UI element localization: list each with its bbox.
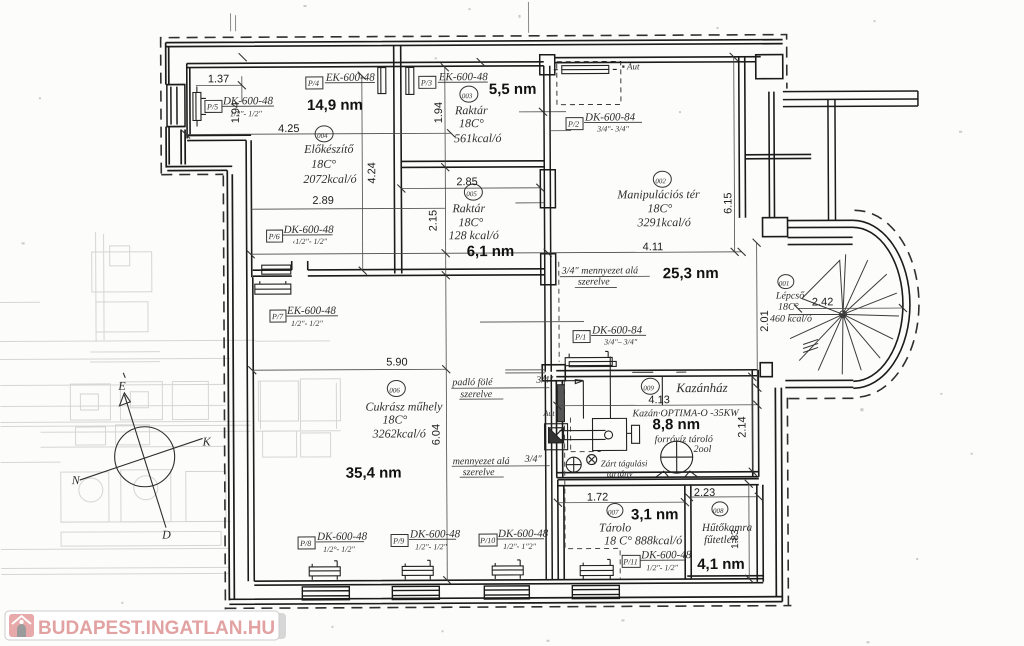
boiler equipment: [544, 356, 698, 478]
svg-text:Kazánház: Kazánház: [675, 380, 727, 395]
svg-text:DK-600-48: DK-600-48: [316, 531, 368, 543]
svg-text:N: N: [71, 473, 81, 487]
svg-text:3262kcal/ó: 3262kcal/ó: [372, 426, 426, 440]
svg-text:009: 009: [643, 384, 654, 392]
inner walls: room top wall: [187, 57, 764, 586]
svg-text:6,1 nm: 6,1 nm: [467, 243, 515, 260]
svg-text:EK-600-48: EK-600-48: [325, 72, 375, 84]
svg-text:1/2″- 1/2″: 1/2″- 1/2″: [291, 319, 323, 328]
svg-text:25,3 nm: 25,3 nm: [663, 265, 719, 282]
svg-text:18C°: 18C°: [382, 412, 407, 426]
svg-text:DK-600-48: DK-600-48: [283, 224, 335, 236]
svg-text:P/3: P/3: [420, 78, 432, 87]
room 005 circle + labels: [427, 176, 514, 260]
radiator P/7 horizontal: [255, 281, 291, 294]
svg-text:14,9 nm: 14,9 nm: [307, 97, 363, 114]
svg-text:007: 007: [608, 508, 619, 516]
svg-text:EK-600-48: EK-600-48: [286, 305, 336, 317]
svg-text:4,1 nm: 4,1 nm: [697, 556, 745, 573]
svg-text:1/2″- 1″2″: 1/2″- 1″2″: [503, 542, 537, 551]
svg-text:DK-600-84: DK-600-84: [591, 324, 643, 336]
spiral stair treads: [789, 254, 900, 375]
svg-text:EK-600-48: EK-600-48: [438, 71, 488, 83]
room 007 Tarolo labels: [587, 491, 682, 547]
svg-text:001: 001: [779, 280, 790, 288]
svg-text:2.85: 2.85: [456, 176, 477, 188]
svg-text:DK-600-84: DK-600-84: [584, 111, 636, 123]
radiator label P/9: [391, 528, 461, 551]
svg-text:‹1/2″- 1/2″: ‹1/2″- 1/2″: [293, 237, 328, 246]
wall W1 between room 004 and 003/005: [394, 45, 402, 273]
svg-text:szerelve: szerelve: [578, 276, 610, 287]
radiator label P/3: [419, 71, 488, 88]
svg-text:szerelve: szerelve: [463, 467, 495, 478]
svg-text:1.72: 1.72: [587, 491, 608, 503]
room 006 circle + labels: [345, 276, 651, 481]
svg-text:18 C° 888kcal/ó: 18 C° 888kcal/ó: [604, 533, 682, 547]
svg-text:K: K: [202, 434, 212, 448]
svg-text:006: 006: [389, 386, 400, 394]
Kazanhaz walls: [556, 370, 759, 478]
door openings in Kazanhaz top wall: [632, 371, 686, 373]
svg-text:8,8 nm: 8,8 nm: [652, 416, 700, 433]
room 009 Kazanhaz labels: [542, 378, 748, 479]
svg-text:tartány: tartány: [607, 468, 633, 478]
svg-text:DK-600-48: DK-600-48: [497, 528, 549, 540]
svg-text:P/6: P/6: [268, 232, 280, 241]
svg-text:DK-600-48: DK-600-48: [409, 528, 461, 540]
svg-text:2.01: 2.01: [759, 310, 771, 331]
svg-text:2.23: 2.23: [694, 487, 715, 499]
svg-text:1.37: 1.37: [208, 73, 229, 85]
svg-text:4.24: 4.24: [366, 162, 378, 183]
svg-text:18C°: 18C°: [459, 116, 484, 130]
svg-text:004: 004: [317, 132, 328, 140]
svg-text:18C°: 18C°: [458, 215, 483, 229]
radiator label P/2: [566, 61, 642, 133]
svg-text:▪ Aut: ▪ Aut: [622, 61, 640, 71]
thin vertical mark above boundary: [515, 112, 571, 203]
bottom radiators x4: [309, 559, 613, 580]
radiator label P/8: [298, 531, 368, 554]
svg-text:2.15: 2.15: [427, 210, 439, 231]
svg-text:5,5 nm: 5,5 nm: [489, 81, 537, 98]
outer walls: [166, 40, 786, 605]
svg-text:2.14: 2.14: [736, 416, 748, 437]
room 004 circle + labels: [208, 73, 379, 208]
svg-text:1.94: 1.94: [433, 102, 445, 123]
radiator P/4 vertical: [378, 68, 386, 94]
svg-text:P/10: P/10: [479, 536, 495, 545]
svg-text:P/7: P/7: [271, 312, 284, 321]
radiator label P/4: [306, 72, 375, 89]
svg-text:Zárt tágulási: Zárt tágulási: [601, 458, 648, 468]
stair tower rounded walls: [785, 220, 911, 389]
dashed property boundary: [161, 34, 921, 610]
room 002 circle + labels: [560, 171, 735, 288]
svg-text:35,4 nm: 35,4 nm: [346, 464, 402, 481]
svg-text:2ool: 2ool: [694, 444, 712, 455]
window W top-left outer wall: [167, 85, 185, 127]
svg-text:003: 003: [462, 92, 473, 100]
hatched pipe band in Kazanhaz: [557, 385, 564, 422]
radiator label P/11: [622, 549, 692, 572]
svg-text:4.25: 4.25: [278, 123, 299, 135]
room 001 stairs labels: [759, 274, 834, 331]
svg-text:P/8: P/8: [299, 539, 311, 548]
svg-text:4.13: 4.13: [648, 394, 669, 406]
dimension lines thin: [186, 56, 905, 581]
svg-text:2.89: 2.89: [312, 195, 333, 207]
compass letters: [70, 378, 212, 542]
radiator P/1 horizontal: [565, 351, 616, 366]
svg-text:Előkészítő: Előkészítő: [303, 142, 354, 156]
svg-text:Hűtőkamra: Hűtőkamra: [701, 522, 753, 534]
bottom wall windows x4: [302, 585, 619, 600]
radiator label P/10: [479, 528, 549, 551]
watermark bar: [5, 611, 286, 640]
svg-text:18C°: 18C°: [778, 302, 799, 313]
terrace top right: [783, 91, 919, 221]
P1 pipe lines: [480, 322, 584, 374]
svg-text:3,1 nm: 3,1 nm: [631, 506, 679, 523]
svg-text:3/4″- 3/4″: 3/4″- 3/4″: [596, 124, 629, 133]
svg-text:18C°: 18C°: [647, 201, 672, 215]
radiator label P/5: [205, 95, 274, 118]
svg-text:6.04: 6.04: [431, 424, 443, 445]
svg-text:3/4″ mennyezet alá: 3/4″ mennyezet alá: [561, 265, 638, 276]
dimension tick marks: [182, 50, 909, 586]
radiator P/6 horizontal: [262, 265, 291, 274]
room 003 circle + labels: [433, 81, 537, 146]
radiator P/3 vertical: [406, 67, 414, 94]
svg-text:DK-600-48: DK-600-48: [222, 95, 274, 107]
svg-text:szerelve: szerelve: [460, 389, 492, 400]
svg-text:3291kcal/ó: 3291kcal/ó: [636, 215, 690, 229]
heating pipes dashed (flue corridor): [559, 261, 621, 578]
svg-text:Raktár: Raktár: [451, 201, 485, 215]
svg-text:padló fölé: padló fölé: [451, 377, 493, 388]
stair section break mark: [803, 339, 818, 352]
svg-text:P/11: P/11: [622, 557, 638, 566]
Tarolo / Hutokamra walls: [558, 479, 764, 583]
svg-text:DK-600-48: DK-600-48: [640, 549, 692, 561]
svg-text:3/4″: 3/4″: [524, 454, 543, 465]
svg-text:460 kcal/ó: 460 kcal/ó: [770, 313, 812, 324]
svg-text:008: 008: [713, 507, 724, 515]
stair bay walls right side: [739, 54, 813, 376]
svg-text:Lépcső: Lépcső: [775, 291, 805, 302]
radiator label P/7: [270, 305, 338, 328]
wall between 003 and 005: [401, 161, 544, 168]
svg-text:1/2″- 1/2″: 1/2″- 1/2″: [415, 542, 447, 551]
svg-text:1/2″- 1/2″: 1/2″- 1/2″: [230, 109, 262, 118]
svg-text:2.42: 2.42: [812, 296, 833, 308]
svg-text:005: 005: [466, 190, 477, 198]
svg-text:Manipulációs tér: Manipulációs tér: [616, 187, 700, 201]
svg-text:D: D: [161, 528, 171, 542]
svg-text:561kcal/ó: 561kcal/ó: [454, 131, 501, 145]
wall south of 004/005 (north wall of Cukrasz): [253, 260, 545, 276]
svg-text:E: E: [117, 379, 126, 393]
svg-text:BUDAPEST.INGATLAN.HU: BUDAPEST.INGATLAN.HU: [38, 618, 275, 639]
svg-text:1/2″- 1/2″: 1/2″- 1/2″: [646, 563, 678, 572]
svg-text:P/5: P/5: [206, 102, 218, 111]
svg-text:3/4″– 3/4″: 3/4″– 3/4″: [603, 337, 638, 346]
svg-text:2072kcal/ó: 2072kcal/ó: [303, 172, 356, 186]
svg-text:1.83: 1.83: [730, 529, 741, 549]
corner block at Kazanhaz NW: [542, 365, 565, 381]
radiator P/5 vertical: [193, 86, 206, 126]
radiator label P/1: [573, 324, 646, 346]
radiator P/2 horizontal with dashed zone: [554, 61, 621, 104]
room 008 Hutokamra labels: [694, 487, 753, 573]
ghost background drawing left side: [0, 231, 341, 575]
svg-text:4.11: 4.11: [643, 241, 664, 253]
svg-text:P/9: P/9: [392, 536, 404, 545]
svg-text:18C°: 18C°: [311, 157, 336, 171]
svg-text:P/1: P/1: [574, 333, 586, 342]
svg-text:1/2°- 1/2″: 1/2°- 1/2″: [323, 545, 355, 554]
radiator label P/6: [267, 224, 335, 246]
svg-text:P/2: P/2: [567, 120, 579, 129]
svg-text:3/4″: 3/4″: [535, 375, 554, 386]
compass: [79, 372, 203, 528]
svg-text:Aut: Aut: [542, 409, 555, 418]
svg-text:P/4: P/4: [307, 79, 319, 88]
svg-text:5.90: 5.90: [386, 356, 407, 368]
svg-text:128 kcal/ó: 128 kcal/ó: [449, 228, 499, 242]
svg-text:mennyezet alá: mennyezet alá: [453, 456, 510, 467]
big vertical wall WA (west wall of Manipulacios ter) with piers: [540, 55, 558, 580]
svg-text:Tárolo: Tárolo: [599, 520, 631, 534]
svg-text:002: 002: [655, 177, 666, 185]
svg-text:6.15: 6.15: [722, 192, 734, 213]
